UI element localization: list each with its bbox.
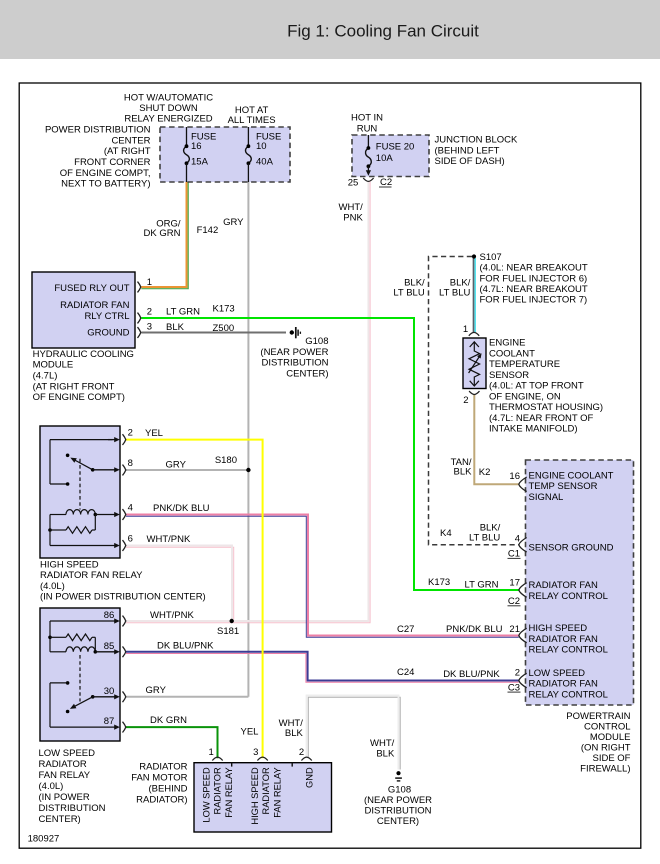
svg-text:JUNCTION BLOCK: JUNCTION BLOCK bbox=[435, 135, 519, 146]
svg-text:1: 1 bbox=[463, 324, 468, 335]
wire LT GRN K173 from hydraulic module pin 2 to PCM pin 17 bbox=[141, 318, 519, 590]
sensor pin 1 socket bbox=[469, 332, 479, 335]
svg-text:PNK/DK BLU: PNK/DK BLU bbox=[446, 624, 503, 635]
junction block (dashed box) bbox=[352, 135, 429, 177]
svg-text:COOLANT: COOLANT bbox=[489, 348, 535, 359]
wire GRY from fuse 10 down to low speed relay pin 30 net bbox=[247, 182, 249, 697]
wire YEL from high speed relay pin 2 to fan motor pin 3 bbox=[126, 440, 263, 759]
PCM pin 16 socket bbox=[519, 477, 527, 492]
svg-text:LOW SPEED: LOW SPEED bbox=[529, 668, 586, 679]
svg-text:RADIATOR FAN: RADIATOR FAN bbox=[529, 580, 598, 591]
LS relay pin 87 internal bbox=[50, 726, 116, 728]
svg-text:25: 25 bbox=[348, 178, 359, 189]
svg-text:FOR FUEL INJECTOR 6): FOR FUEL INJECTOR 6) bbox=[480, 273, 588, 284]
fuse 20 10A bbox=[367, 135, 369, 148]
svg-text:HIGH SPEED: HIGH SPEED bbox=[250, 767, 260, 825]
svg-text:(4.7L): (4.7L) bbox=[33, 371, 58, 382]
svg-text:POWERTRAIN: POWERTRAIN bbox=[566, 711, 630, 722]
svg-text:DISTRIBUTION: DISTRIBUTION bbox=[364, 805, 431, 816]
svg-text:C27: C27 bbox=[397, 624, 414, 635]
svg-text:K4: K4 bbox=[440, 528, 452, 539]
PCM pin 4 socket + C1 bbox=[519, 538, 527, 553]
wire DK GRN from low speed relay pin 87 to fan motor pin 1 bbox=[126, 727, 218, 758]
svg-text:C24: C24 bbox=[397, 667, 414, 678]
svg-text:10A: 10A bbox=[376, 153, 394, 164]
svg-text:DISTRIBUTION: DISTRIBUTION bbox=[261, 358, 328, 369]
svg-text:G108: G108 bbox=[305, 336, 328, 347]
svg-text:FAN RELAY: FAN RELAY bbox=[224, 767, 234, 817]
svg-text:POWER DISTRIBUTION: POWER DISTRIBUTION bbox=[45, 125, 151, 136]
svg-text:LOW SPEED: LOW SPEED bbox=[39, 748, 96, 759]
svg-text:6: 6 bbox=[128, 534, 133, 545]
svg-text:3: 3 bbox=[253, 747, 258, 758]
svg-text:GRY: GRY bbox=[166, 460, 187, 471]
wire GRY from low speed relay pin 30 to fuse-10 gray net bbox=[126, 696, 248, 698]
svg-text:LT BLU: LT BLU bbox=[393, 287, 424, 298]
svg-text:BLK: BLK bbox=[454, 467, 473, 478]
svg-text:WHT/: WHT/ bbox=[339, 202, 364, 213]
svg-text:GROUND: GROUND bbox=[87, 328, 129, 339]
svg-text:CENTER): CENTER) bbox=[286, 369, 328, 380]
fuse 16 15A bbox=[186, 127, 188, 146]
powertrain control module (dashed box) bbox=[526, 460, 634, 705]
svg-text:PNK: PNK bbox=[343, 213, 363, 224]
svg-text:FAN MOTOR: FAN MOTOR bbox=[131, 773, 187, 784]
svg-text:ALL TIMES: ALL TIMES bbox=[228, 115, 276, 126]
svg-text:MODULE: MODULE bbox=[33, 360, 74, 371]
svg-text:DISTRIBUTION: DISTRIBUTION bbox=[39, 803, 106, 814]
svg-text:GRY: GRY bbox=[223, 217, 244, 228]
svg-text:LT GRN: LT GRN bbox=[166, 306, 200, 317]
svg-text:PNK/DK BLU: PNK/DK BLU bbox=[153, 503, 210, 514]
svg-text:2: 2 bbox=[463, 395, 468, 406]
svg-text:(4.7L: NEAR FRONT OF: (4.7L: NEAR FRONT OF bbox=[489, 413, 594, 424]
svg-text:(4.0L: NEAR BREAKOUT: (4.0L: NEAR BREAKOUT bbox=[480, 263, 588, 274]
wire TAN/BLK K2 from coolant sensor pin 2 to PCM pin 16 bbox=[474, 395, 519, 485]
HS relay pin sockets bbox=[123, 434, 126, 445]
wire ORG/DK GRN F142 from fuse 16 to hydraulic module pin 1 bbox=[141, 182, 188, 289]
wire WHT/PNK from high speed relay pin 6 to splice S181 bbox=[126, 547, 234, 619]
wire BLK/LT BLU from splice S107 to coolant sensor pin 1 bbox=[473, 257, 475, 333]
svg-text:RADIATOR: RADIATOR bbox=[261, 767, 271, 814]
motor pin 1 socket bbox=[212, 757, 222, 760]
svg-text:16: 16 bbox=[191, 141, 202, 152]
svg-text:3: 3 bbox=[147, 321, 152, 332]
svg-text:DK BLU/PNK: DK BLU/PNK bbox=[157, 641, 214, 652]
svg-text:HIGH SPEED: HIGH SPEED bbox=[529, 623, 588, 634]
LS relay coil bbox=[50, 651, 66, 653]
svg-text:SIDE OF DASH): SIDE OF DASH) bbox=[435, 156, 505, 167]
svg-text:WHT/PNK: WHT/PNK bbox=[147, 534, 191, 545]
motor pin 2 socket bbox=[301, 757, 311, 760]
svg-text:K2: K2 bbox=[479, 467, 491, 478]
svg-text:ENGINE: ENGINE bbox=[489, 338, 525, 349]
radiator fan motor box bbox=[194, 763, 332, 832]
svg-text:S180: S180 bbox=[215, 455, 237, 466]
svg-text:(4.0L): (4.0L) bbox=[40, 581, 65, 592]
svg-text:INTAKE MANIFOLD): INTAKE MANIFOLD) bbox=[489, 424, 578, 435]
HS relay coil bbox=[50, 514, 66, 516]
svg-text:RADIATOR: RADIATOR bbox=[139, 762, 187, 773]
engine coolant temperature sensor bbox=[463, 338, 486, 389]
module pin 2 socket bbox=[138, 313, 141, 324]
svg-text:F142: F142 bbox=[197, 225, 219, 236]
svg-text:YEL: YEL bbox=[241, 727, 259, 738]
svg-text:21: 21 bbox=[509, 624, 520, 635]
svg-text:BLK: BLK bbox=[376, 748, 395, 759]
svg-text:180927: 180927 bbox=[28, 834, 60, 845]
svg-text:4: 4 bbox=[515, 533, 520, 544]
LS relay actuator dashed link bbox=[79, 655, 81, 702]
svg-text:OF ENGINE COMPT): OF ENGINE COMPT) bbox=[33, 392, 125, 403]
high speed radiator fan relay bbox=[40, 426, 120, 558]
svg-text:YEL: YEL bbox=[145, 428, 163, 439]
wire WHT/BLK from fan motor pin 2 (GND) to ground G108 bbox=[308, 697, 400, 769]
svg-text:HYDRAULIC COOLING: HYDRAULIC COOLING bbox=[33, 349, 134, 360]
svg-text:HIGH SPEED: HIGH SPEED bbox=[40, 559, 99, 570]
splice S180 bbox=[246, 468, 250, 472]
svg-text:(IN POWER: (IN POWER bbox=[39, 792, 90, 803]
HS relay resistor bbox=[48, 528, 52, 532]
svg-text:SENSOR: SENSOR bbox=[489, 370, 529, 381]
ground G108 (near power distribution center, bottom) bbox=[396, 771, 400, 775]
svg-text:RELAY CONTROL: RELAY CONTROL bbox=[529, 645, 608, 656]
svg-text:85: 85 bbox=[104, 641, 115, 652]
svg-text:FOR FUEL INJECTOR 7): FOR FUEL INJECTOR 7) bbox=[480, 295, 588, 306]
motor pin 3 socket bbox=[257, 757, 267, 760]
HS relay pin 2 internal contact bbox=[50, 439, 113, 441]
svg-text:16: 16 bbox=[509, 471, 520, 482]
HS relay switch bbox=[66, 454, 70, 458]
svg-text:HOT W/AUTOMATIC: HOT W/AUTOMATIC bbox=[124, 92, 213, 103]
power distribution center (dashed box) bbox=[160, 127, 290, 182]
junction block pin 25 socket bbox=[363, 178, 373, 181]
HS relay pin 8 internal bbox=[93, 469, 116, 471]
svg-text:40A: 40A bbox=[256, 157, 274, 168]
svg-text:SHUT DOWN: SHUT DOWN bbox=[139, 103, 198, 114]
svg-text:(AT RIGHT: (AT RIGHT bbox=[104, 146, 151, 157]
svg-text:RELAY ENERGIZED: RELAY ENERGIZED bbox=[124, 113, 212, 124]
svg-text:RADIATOR: RADIATOR bbox=[39, 759, 87, 770]
svg-text:RADIATOR FAN: RADIATOR FAN bbox=[529, 679, 598, 690]
svg-text:THERMOSTAT HOUSING): THERMOSTAT HOUSING) bbox=[489, 402, 603, 413]
module pin 1 socket bbox=[138, 282, 141, 293]
svg-text:TEMP SENSOR: TEMP SENSOR bbox=[529, 481, 598, 492]
svg-text:2: 2 bbox=[128, 428, 133, 439]
svg-text:FIREWALL): FIREWALL) bbox=[580, 764, 630, 775]
hydraulic cooling module bbox=[32, 272, 135, 348]
svg-text:(ON RIGHT: (ON RIGHT bbox=[581, 743, 631, 754]
wire BLK Z500 from hydraulic module pin 3 to ground G108 bbox=[141, 332, 286, 334]
wire WHT/PNK from junction block fuse 20 down and left to relay pin 86 bbox=[126, 182, 370, 623]
svg-text:CONTROL: CONTROL bbox=[584, 722, 630, 733]
svg-text:TEMPERATURE: TEMPERATURE bbox=[489, 359, 560, 370]
svg-text:(4.0L): (4.0L) bbox=[39, 781, 64, 792]
svg-text:SIDE OF: SIDE OF bbox=[592, 753, 630, 764]
svg-text:(AT RIGHT FRONT: (AT RIGHT FRONT bbox=[33, 381, 115, 392]
svg-text:LT BLU: LT BLU bbox=[469, 533, 500, 544]
HS relay actuator dashed link bbox=[79, 459, 81, 510]
svg-text:CENTER: CENTER bbox=[111, 135, 150, 146]
svg-text:FAN RELAY: FAN RELAY bbox=[273, 767, 283, 817]
PCM pin 17 socket + C2 bbox=[519, 583, 527, 598]
svg-text:RADIATOR: RADIATOR bbox=[213, 767, 223, 814]
LS relay switch bbox=[66, 681, 70, 685]
svg-text:HOT IN: HOT IN bbox=[351, 112, 383, 123]
LS relay pin sockets bbox=[123, 616, 126, 627]
svg-text:C2: C2 bbox=[380, 177, 392, 188]
wire PNK/DK BLU C27 from high speed relay pin 4 to PCM pin 21 bbox=[126, 516, 519, 637]
svg-text:GND: GND bbox=[305, 767, 315, 788]
svg-text:S181: S181 bbox=[217, 626, 239, 637]
svg-text:1: 1 bbox=[147, 277, 152, 288]
wire GRY from high speed relay pin 8 to splice S180 bbox=[126, 469, 248, 471]
svg-text:CENTER): CENTER) bbox=[39, 814, 81, 825]
fuse 10 40A bbox=[247, 127, 249, 146]
svg-text:FUSED RLY OUT: FUSED RLY OUT bbox=[54, 283, 129, 294]
motor connector ticks bbox=[231, 763, 233, 767]
svg-text:8: 8 bbox=[128, 458, 133, 469]
svg-text:1: 1 bbox=[209, 747, 214, 758]
thermistor symbol bbox=[473, 343, 475, 352]
svg-text:BLK: BLK bbox=[166, 322, 185, 333]
svg-text:2: 2 bbox=[299, 747, 304, 758]
svg-text:(4.7L: NEAR BREAKOUT: (4.7L: NEAR BREAKOUT bbox=[480, 284, 588, 295]
svg-text:FRONT CORNER: FRONT CORNER bbox=[74, 157, 150, 168]
svg-text:RUN: RUN bbox=[357, 123, 378, 134]
svg-text:RELAY CONTROL: RELAY CONTROL bbox=[529, 591, 608, 602]
HS relay pin 6 internal bbox=[50, 545, 116, 547]
svg-text:BLK: BLK bbox=[285, 728, 304, 739]
svg-text:DK BLU/PNK: DK BLU/PNK bbox=[443, 669, 500, 680]
svg-text:2: 2 bbox=[515, 667, 520, 678]
svg-text:(4.0L: AT TOP FRONT: (4.0L: AT TOP FRONT bbox=[489, 381, 584, 392]
svg-text:FUSE 20: FUSE 20 bbox=[376, 142, 415, 153]
svg-text:OF ENGINE, ON: OF ENGINE, ON bbox=[489, 391, 561, 402]
LS relay pin 86 internal bbox=[50, 620, 116, 622]
splice S181 bbox=[230, 619, 234, 623]
svg-text:OF ENGINE COMPT,: OF ENGINE COMPT, bbox=[60, 168, 151, 179]
svg-text:SIGNAL: SIGNAL bbox=[529, 492, 564, 503]
PCM pin 2 socket + C3 bbox=[519, 673, 527, 688]
sensor pin 2 socket bbox=[469, 391, 479, 394]
svg-text:(BEHIND: (BEHIND bbox=[148, 784, 187, 795]
svg-text:DK GRN: DK GRN bbox=[150, 715, 187, 726]
svg-text:10: 10 bbox=[256, 141, 267, 152]
svg-text:K173: K173 bbox=[428, 577, 450, 588]
svg-text:(NEAR POWER: (NEAR POWER bbox=[364, 795, 432, 806]
svg-text:ENGINE COOLANT: ENGINE COOLANT bbox=[529, 470, 614, 481]
svg-text:RADIATOR): RADIATOR) bbox=[136, 795, 187, 806]
svg-text:NEXT TO BATTERY): NEXT TO BATTERY) bbox=[61, 179, 150, 190]
LS relay pin 30 internal bbox=[93, 696, 116, 698]
svg-text:17: 17 bbox=[509, 577, 520, 588]
LS relay pin 85 internal bbox=[95, 651, 116, 653]
svg-text:RADIATOR FAN: RADIATOR FAN bbox=[60, 300, 129, 311]
svg-text:RADIATOR FAN RELAY: RADIATOR FAN RELAY bbox=[40, 570, 143, 581]
svg-text:(IN POWER DISTRIBUTION CENTER): (IN POWER DISTRIBUTION CENTER) bbox=[40, 592, 206, 603]
svg-text:(NEAR POWER: (NEAR POWER bbox=[260, 347, 328, 358]
svg-text:(BEHIND LEFT: (BEHIND LEFT bbox=[435, 145, 500, 156]
title bar bbox=[0, 0, 660, 59]
svg-text:RELAY CONTROL: RELAY CONTROL bbox=[529, 689, 608, 700]
svg-text:2: 2 bbox=[147, 306, 152, 317]
svg-text:WHT/: WHT/ bbox=[279, 718, 304, 729]
svg-text:86: 86 bbox=[104, 610, 115, 621]
svg-text:SENSOR GROUND: SENSOR GROUND bbox=[529, 543, 614, 554]
PCM pin 21 socket bbox=[519, 628, 527, 643]
svg-text:15A: 15A bbox=[191, 157, 209, 168]
svg-text:K173: K173 bbox=[213, 304, 235, 315]
svg-text:WHT/PNK: WHT/PNK bbox=[150, 610, 194, 621]
svg-text:4: 4 bbox=[128, 503, 133, 514]
svg-text:LT BLU: LT BLU bbox=[439, 287, 470, 298]
svg-text:Z500: Z500 bbox=[213, 323, 235, 334]
wire DK BLU/PNK C24 from low speed relay pin 85 to PCM pin 2 bbox=[126, 654, 519, 683]
low speed radiator fan relay bbox=[40, 608, 120, 741]
svg-text:CENTER): CENTER) bbox=[377, 816, 419, 827]
svg-text:MODULE: MODULE bbox=[590, 732, 631, 743]
svg-text:RLY CTRL: RLY CTRL bbox=[84, 311, 129, 322]
svg-text:G108: G108 bbox=[388, 784, 411, 795]
svg-text:DK GRN: DK GRN bbox=[144, 228, 181, 239]
svg-text:FAN RELAY: FAN RELAY bbox=[39, 770, 91, 781]
svg-text:GRY: GRY bbox=[146, 685, 167, 696]
svg-text:S107: S107 bbox=[480, 252, 502, 263]
svg-text:LOW SPEED: LOW SPEED bbox=[202, 767, 212, 823]
svg-text:30: 30 bbox=[104, 686, 115, 697]
wire BLK/LT BLU K4 (dashed) from S107 to PCM pin 4 sensor ground bbox=[429, 257, 519, 545]
svg-text:LT GRN: LT GRN bbox=[465, 580, 499, 591]
svg-text:87: 87 bbox=[104, 716, 115, 727]
svg-text:RADIATOR FAN: RADIATOR FAN bbox=[529, 634, 598, 645]
splice S107 bbox=[472, 254, 476, 258]
svg-text:Fig 1: Cooling Fan Circuit: Fig 1: Cooling Fan Circuit bbox=[287, 22, 479, 41]
LS relay resistor bbox=[66, 634, 92, 641]
ground G108 (right of hydraulic module) bbox=[290, 330, 294, 334]
module pin 3 socket bbox=[138, 327, 141, 338]
